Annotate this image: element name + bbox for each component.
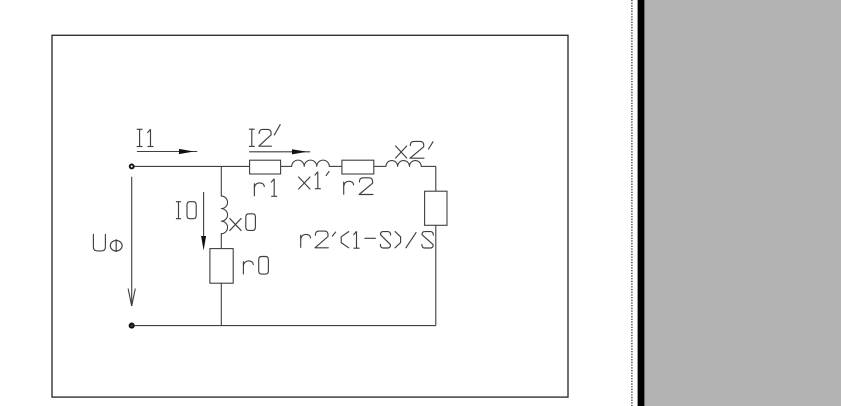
label x0: [230, 214, 256, 231]
resistor r2: [342, 160, 374, 174]
dotted vertical divider: [631, 0, 633, 406]
current arrow I2': [249, 149, 310, 154]
wire top: r2 to x2': [374, 165, 386, 167]
label x1': [298, 171, 329, 189]
gray side panel: [644, 0, 841, 406]
resistor r1: [250, 160, 281, 174]
wire right vertical upper: [435, 166, 437, 191]
label r2'(1-S)/S: [301, 231, 434, 248]
label r2: [344, 178, 373, 195]
wire shunt middle: [220, 234, 222, 249]
resistor r0: [210, 249, 233, 284]
wire top: r1 to x1': [281, 165, 292, 167]
wire shunt upper: [220, 166, 222, 196]
voltage arrow U-phi: [128, 177, 135, 306]
current arrow I0: [201, 192, 206, 251]
resistor r2'(1-S)/S body: [425, 191, 447, 225]
node A terminal (top-left): [130, 164, 134, 168]
inductor x2': [386, 161, 421, 167]
inductor x0: [221, 196, 227, 234]
border frame: [52, 35, 568, 397]
inductor x1': [292, 160, 330, 166]
label r0: [243, 257, 268, 275]
label I0: [176, 202, 196, 219]
wire top: x1' to r2: [329, 165, 342, 167]
label x2': [395, 141, 433, 158]
wire top: terminal to r1: [134, 165, 249, 167]
label I2': [249, 124, 281, 146]
wire bottom: [134, 325, 436, 327]
black vertical bar: [638, 0, 645, 406]
current arrow I1: [137, 149, 197, 154]
label U-phi: [93, 234, 122, 252]
wire top: x2' to corner: [421, 165, 436, 167]
label I1: [137, 129, 154, 146]
wire shunt lower: [220, 283, 222, 325]
node B terminal (bottom-left): [130, 324, 134, 328]
label r1: [254, 179, 277, 197]
wire right vertical lower: [435, 225, 437, 325]
